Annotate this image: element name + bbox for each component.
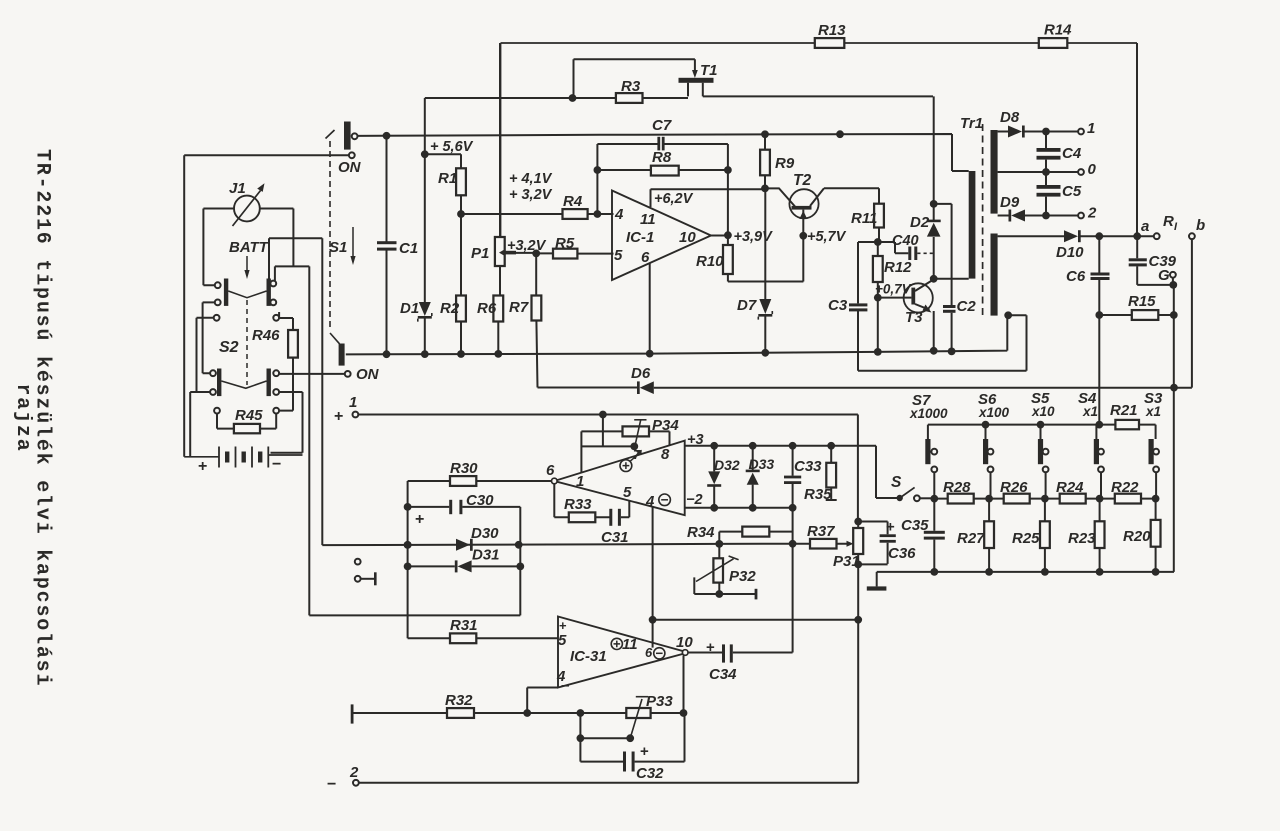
svg-text:R2: R2 xyxy=(440,300,460,317)
wire P31 to terminal2 xyxy=(857,564,859,782)
wire C32 loop xyxy=(580,713,684,762)
resistor R10 xyxy=(696,235,803,281)
svg-text:R10: R10 xyxy=(696,253,724,270)
svg-text:R23: R23 xyxy=(1068,530,1096,547)
resistor R21 xyxy=(1110,402,1139,429)
transformer Tr1 secondary lower xyxy=(991,234,998,316)
node T2 base xyxy=(761,185,769,193)
wire P1 wiper +3,2V xyxy=(507,238,547,257)
wire R3 row xyxy=(425,59,695,154)
switch S3 xyxy=(1149,439,1160,499)
svg-text:x1000: x1000 xyxy=(909,406,948,421)
svg-text:IC-31: IC-31 xyxy=(570,648,607,665)
svg-text:2: 2 xyxy=(1087,205,1097,222)
capacitor C4 xyxy=(1037,132,1082,173)
svg-text:+ 5,6V: + 5,6V xyxy=(430,139,474,155)
svg-text:+: + xyxy=(334,408,343,425)
svg-text:R12: R12 xyxy=(884,259,912,276)
wire J1 left xyxy=(203,209,234,286)
wire ground rail top section xyxy=(346,311,1012,354)
svg-text:rajza: rajza xyxy=(11,384,34,453)
wire lower left down xyxy=(190,392,210,457)
svg-text:S2: S2 xyxy=(219,339,239,356)
label S3 xyxy=(1144,390,1163,419)
transistor T2 xyxy=(765,172,879,282)
wire right bracket x520 xyxy=(516,507,524,616)
svg-text:R3: R3 xyxy=(621,78,641,95)
switch S5 xyxy=(1038,439,1049,499)
terminal 0 xyxy=(1078,161,1096,178)
wire R4 row y214 xyxy=(457,210,613,218)
svg-text:R26: R26 xyxy=(1000,479,1028,496)
wire T1 drain xyxy=(703,95,933,97)
svg-text:x100: x100 xyxy=(978,405,1010,420)
label S7 xyxy=(909,392,948,421)
wire pin4 column xyxy=(649,507,657,648)
potentiometer P31 xyxy=(833,518,863,570)
svg-text:R24: R24 xyxy=(1056,479,1084,496)
svg-text:+3,2V: +3,2V xyxy=(507,238,547,254)
resistor R37 xyxy=(807,523,837,549)
resistor R15 xyxy=(1099,293,1177,320)
resistor R1 xyxy=(425,154,466,214)
svg-text:C7: C7 xyxy=(652,117,672,134)
transformer Tr1 secondary upper xyxy=(991,130,998,214)
resistor R32 xyxy=(445,692,474,718)
wire ladder sub rail xyxy=(928,421,1156,439)
wire pin10 C34 xyxy=(688,639,793,656)
svg-text:R15: R15 xyxy=(1128,293,1156,310)
diode D10 xyxy=(1056,230,1084,261)
wire b column xyxy=(1191,239,1193,387)
svg-text:x1: x1 xyxy=(1145,404,1161,419)
terminal a xyxy=(1141,218,1160,239)
svg-text:R28: R28 xyxy=(943,479,971,496)
resistor R35 xyxy=(804,446,837,503)
svg-text:P32: P32 xyxy=(729,568,756,585)
terminal 2 xyxy=(1078,205,1097,222)
svg-text:4: 4 xyxy=(614,206,624,223)
wire S2 row y266 xyxy=(275,266,309,615)
wire battery minus link xyxy=(271,392,303,453)
resistor R14 xyxy=(1039,22,1072,48)
wire pin6 to ground rail xyxy=(646,263,654,357)
capacitor C2 xyxy=(943,298,976,355)
label S5 xyxy=(1031,390,1055,419)
capacitor C7 xyxy=(652,117,672,150)
wire top rail y43 xyxy=(501,43,1138,237)
svg-text:C4: C4 xyxy=(1062,145,1082,162)
wire D6 row xyxy=(538,387,1192,389)
svg-text:S1: S1 xyxy=(329,239,347,256)
node primary bottom xyxy=(930,275,969,283)
label +4,1V xyxy=(509,171,553,203)
potentiometer P33 xyxy=(626,693,673,738)
svg-text:D6: D6 xyxy=(631,365,651,382)
switch S2 lower pole xyxy=(210,369,279,397)
wire C7 R8 columns xyxy=(594,144,732,235)
svg-text:+3,9V: +3,9V xyxy=(734,229,774,245)
svg-text:C3: C3 xyxy=(828,297,848,314)
svg-text:11: 11 xyxy=(640,211,656,228)
potentiometer P1 xyxy=(471,43,516,296)
resistor R25 xyxy=(1012,499,1050,572)
terminal ON1b xyxy=(349,152,355,158)
resistor R30 xyxy=(408,460,552,486)
op-amp IC-1 xyxy=(612,191,711,281)
wire J1 right xyxy=(260,209,294,267)
diode D32 xyxy=(707,446,740,508)
capacitor C39 xyxy=(1129,236,1177,285)
wire bottom box to secondary xyxy=(858,315,1027,371)
resistor R5 xyxy=(536,235,613,259)
svg-text:R5: R5 xyxy=(555,235,575,252)
capacitor C1 xyxy=(377,136,418,358)
svg-text:R35: R35 xyxy=(804,486,832,503)
resistor R31 xyxy=(408,617,558,643)
svg-text:1: 1 xyxy=(1087,120,1095,137)
wire battery to S1 xyxy=(184,155,349,457)
wire main row y544 xyxy=(322,540,846,549)
node R11 R12 xyxy=(874,238,882,246)
svg-text:C36: C36 xyxy=(888,545,916,562)
label RI xyxy=(1163,213,1178,233)
wire ladder R rail xyxy=(930,495,1159,503)
svg-text:5: 5 xyxy=(558,632,567,649)
svg-text:R30: R30 xyxy=(450,460,478,477)
capacitor C34 xyxy=(709,644,737,683)
svg-text:+: + xyxy=(198,458,207,475)
wire input bracket y615 xyxy=(309,614,520,616)
wire R33 C31 xyxy=(554,484,629,517)
svg-text:S: S xyxy=(891,474,902,491)
svg-text:P31: P31 xyxy=(833,553,860,570)
svg-text:IC-1: IC-1 xyxy=(626,229,654,246)
transistor T3 xyxy=(878,279,938,354)
wire right column xyxy=(1170,285,1178,572)
svg-text:+6,2V: +6,2V xyxy=(654,191,694,207)
svg-text:10: 10 xyxy=(679,229,696,246)
wire R46 top circles xyxy=(197,312,294,392)
resistor R27 xyxy=(957,499,994,572)
label S6 xyxy=(978,391,1010,420)
diode D1 (zener) xyxy=(400,154,432,358)
svg-text:C34: C34 xyxy=(709,666,737,683)
svg-text:R21: R21 xyxy=(1110,402,1138,419)
resistor R13 xyxy=(815,22,846,48)
svg-text:D8: D8 xyxy=(1000,109,1020,126)
svg-text:R33: R33 xyxy=(564,496,592,513)
title text (rotated) xyxy=(11,149,54,687)
resistor R4 xyxy=(563,193,588,219)
svg-text:BATT: BATT xyxy=(229,239,270,256)
svg-text:+: + xyxy=(640,743,649,760)
resistor R26 xyxy=(1000,479,1030,504)
resistor R23 xyxy=(1068,499,1105,572)
svg-text:6: 6 xyxy=(546,462,555,479)
wire R14 to node a xyxy=(1136,43,1138,233)
op-amp IC-3 xyxy=(546,432,704,515)
diode D7 (zener) xyxy=(737,188,772,356)
terminal 1 plus xyxy=(334,394,358,425)
wire rail B+ y134 xyxy=(357,130,968,171)
wire P33 wiper loop xyxy=(577,713,635,742)
svg-text:R31: R31 xyxy=(450,617,478,634)
svg-text:R11: R11 xyxy=(851,210,877,227)
diode D33 xyxy=(746,446,775,508)
svg-text:D1: D1 xyxy=(400,300,419,317)
wire pin4 bracket xyxy=(527,688,558,714)
svg-text:C2: C2 xyxy=(957,298,977,315)
svg-text:R37: R37 xyxy=(807,523,835,540)
svg-text:+: + xyxy=(559,618,567,633)
svg-text:4: 4 xyxy=(556,668,566,685)
resistor R2 xyxy=(440,214,466,358)
wire +3 rail xyxy=(685,442,900,498)
capacitor C40 xyxy=(878,233,933,260)
svg-text:R8: R8 xyxy=(652,149,672,166)
wire pin11 to T2 base node xyxy=(651,189,766,207)
svg-text:T3: T3 xyxy=(905,309,923,326)
svg-text:Tr1: Tr1 xyxy=(960,115,983,132)
svg-text:2: 2 xyxy=(349,764,359,781)
diode D2 xyxy=(910,96,941,278)
wire P34 right xyxy=(649,431,670,445)
diode D9 xyxy=(1000,194,1025,222)
svg-text:R4: R4 xyxy=(563,193,583,210)
svg-text:8: 8 xyxy=(661,446,670,463)
node T3 base xyxy=(874,294,882,356)
wire R46 bottom xyxy=(279,358,293,411)
svg-text:0: 0 xyxy=(1088,161,1097,178)
wire upper to lower pole xyxy=(203,302,215,373)
resistor R9 xyxy=(760,134,795,188)
svg-text:T2: T2 xyxy=(793,172,811,189)
terminal ON2 xyxy=(345,366,380,383)
transistor T1 xyxy=(679,59,718,96)
svg-text:R22: R22 xyxy=(1111,479,1139,496)
terminal b xyxy=(1189,217,1205,239)
svg-text:R6: R6 xyxy=(477,300,497,317)
wire ladder bottom rail xyxy=(877,568,1174,576)
resistor R11 xyxy=(851,188,884,242)
op-amp IC-31 xyxy=(556,617,693,688)
svg-text:+5,7V: +5,7V xyxy=(807,229,847,245)
wire terminal2 rail xyxy=(359,782,858,784)
switch S1 dashed link xyxy=(330,141,340,344)
svg-text:1: 1 xyxy=(349,394,357,411)
wire pin7 wiper xyxy=(581,415,638,451)
svg-text:R7: R7 xyxy=(509,299,529,316)
svg-text:R45: R45 xyxy=(235,407,263,424)
svg-text:R9: R9 xyxy=(775,155,795,172)
transformer Tr1 primary xyxy=(960,115,983,279)
resistor R46 xyxy=(252,327,298,358)
capacitor C33 xyxy=(784,446,822,508)
terminal 2 minus xyxy=(327,764,359,793)
svg-text:C33: C33 xyxy=(794,458,822,475)
svg-text:G: G xyxy=(1158,267,1170,284)
switch S7 xyxy=(925,439,937,499)
wire ON2 to S2 xyxy=(276,373,345,375)
ground xyxy=(867,572,887,591)
svg-text:C32: C32 xyxy=(636,765,664,782)
svg-text:C6: C6 xyxy=(1066,268,1086,285)
wire C6 to ladder xyxy=(1098,315,1100,425)
svg-text:R1: R1 xyxy=(438,170,457,187)
transformer core xyxy=(982,124,984,318)
svg-text:a: a xyxy=(1141,218,1149,235)
svg-text:R13: R13 xyxy=(818,22,846,39)
capacitor C35 ladder xyxy=(924,499,945,572)
svg-text:−: − xyxy=(272,456,281,473)
input terminal upper xyxy=(355,559,361,565)
node +5,7V xyxy=(799,229,846,245)
svg-text:R14: R14 xyxy=(1044,22,1072,39)
switch S xyxy=(891,474,934,501)
svg-text:R34: R34 xyxy=(687,524,715,541)
svg-text:R25: R25 xyxy=(1012,530,1040,547)
wire sec out 1 xyxy=(998,128,1079,136)
capacitor C31 xyxy=(601,509,629,546)
diode D30 xyxy=(456,525,499,551)
svg-text:D30: D30 xyxy=(471,525,499,542)
resistor R3 xyxy=(616,78,643,103)
svg-text:b: b xyxy=(1196,217,1205,234)
meter J1 xyxy=(229,180,265,226)
input terminal lower xyxy=(355,572,377,585)
wire a-node row xyxy=(998,232,1154,240)
resistor R20 xyxy=(1123,499,1161,572)
svg-text:P33: P33 xyxy=(646,693,673,710)
resistor R28 xyxy=(943,479,974,504)
wire -2 rail xyxy=(685,504,797,512)
svg-text:x10: x10 xyxy=(1031,404,1055,419)
svg-text:5: 5 xyxy=(614,247,623,264)
svg-text:7: 7 xyxy=(633,447,641,462)
svg-text:R20: R20 xyxy=(1123,528,1151,545)
switch S1 upper ON xyxy=(326,122,351,150)
capacitor C30 xyxy=(408,492,521,528)
diode D8 xyxy=(1000,109,1025,138)
wire C33 column down xyxy=(792,508,794,653)
battery BATT cells xyxy=(184,447,302,476)
svg-text:D2: D2 xyxy=(910,214,930,231)
switch S1 lower ON xyxy=(339,344,345,366)
svg-text:D33: D33 xyxy=(749,456,775,472)
resistor R8 xyxy=(597,149,728,176)
switch S6 xyxy=(983,439,993,499)
wire left bracket x407 xyxy=(404,481,412,638)
svg-text:C40: C40 xyxy=(892,233,919,249)
svg-text:10: 10 xyxy=(676,634,693,651)
svg-text:D7: D7 xyxy=(737,297,757,314)
label S4 xyxy=(1078,390,1098,419)
resistor R33 xyxy=(564,496,595,522)
diode D6 xyxy=(631,365,654,394)
resistor R12 xyxy=(873,242,912,298)
capacitor C5 xyxy=(1037,172,1082,216)
svg-text:C5: C5 xyxy=(1062,183,1082,200)
label +0,7V xyxy=(875,282,912,297)
svg-text:P1: P1 xyxy=(471,245,489,262)
wire R32 row xyxy=(351,704,688,723)
svg-text:R: R xyxy=(1163,213,1174,230)
terminal G xyxy=(1158,267,1177,289)
label S1 xyxy=(329,227,356,265)
svg-text:+ 4,1V: + 4,1V xyxy=(509,171,553,187)
svg-text:R46: R46 xyxy=(252,327,280,344)
label S2 xyxy=(219,339,239,356)
svg-text:x1: x1 xyxy=(1082,404,1098,419)
capacitor C3 xyxy=(828,242,878,371)
wire terminal1 rail xyxy=(358,411,858,522)
svg-text:C30: C30 xyxy=(466,492,494,509)
svg-text:D10: D10 xyxy=(1056,244,1084,261)
wire P34 left to pin1 xyxy=(581,431,622,472)
svg-text:D31: D31 xyxy=(472,547,500,564)
node +5,6V xyxy=(421,139,474,158)
svg-text:+: + xyxy=(886,519,895,536)
diode D31 xyxy=(455,547,500,573)
resistor R24 xyxy=(1056,479,1086,504)
resistor R45 xyxy=(214,407,279,433)
label BATT xyxy=(229,239,270,279)
svg-text:J1: J1 xyxy=(229,180,246,197)
capacitor C6 xyxy=(1066,236,1110,319)
svg-text:6: 6 xyxy=(641,249,650,266)
wire sec out 2 xyxy=(998,212,1079,220)
wire S2 dashed xyxy=(246,300,248,385)
wire C2 tap xyxy=(930,200,952,305)
svg-text:5: 5 xyxy=(623,484,632,501)
svg-text:+: + xyxy=(706,639,715,656)
wire sec out 0 xyxy=(998,168,1079,176)
svg-text:6: 6 xyxy=(645,645,653,660)
svg-text:C1: C1 xyxy=(399,240,418,257)
capacitor C36 loop xyxy=(858,517,929,564)
switch S2 upper pole xyxy=(215,279,276,306)
svg-text:ON: ON xyxy=(338,159,362,176)
capacitor C32 xyxy=(623,743,664,782)
resistor R22 xyxy=(1111,479,1141,504)
svg-text:C31: C31 xyxy=(601,529,629,546)
resistor R6 xyxy=(477,296,503,358)
wire S2 row y238 xyxy=(269,238,322,545)
node +3,9V pin10 xyxy=(711,229,773,245)
svg-text:11: 11 xyxy=(622,636,638,653)
terminal ON1 xyxy=(338,133,362,176)
svg-text:−: − xyxy=(327,776,336,793)
wire pin10 feedback xyxy=(683,655,685,713)
switch S4 xyxy=(1094,439,1104,499)
potentiometer P34 xyxy=(623,417,680,447)
svg-text:D9: D9 xyxy=(1000,194,1020,211)
svg-text:R27: R27 xyxy=(957,530,985,547)
resistor R7 xyxy=(509,253,541,387)
terminal 1 xyxy=(1078,120,1095,137)
svg-text:+: + xyxy=(415,511,424,528)
svg-text:1: 1 xyxy=(576,473,584,490)
wire pin4 to P31 column xyxy=(653,616,863,624)
svg-text:+ 3,2V: + 3,2V xyxy=(509,187,553,203)
resistor R34 xyxy=(687,524,793,544)
svg-text:−2: −2 xyxy=(686,492,703,508)
svg-text:R32: R32 xyxy=(445,692,473,709)
svg-text:ON: ON xyxy=(356,366,380,383)
wire D31 row xyxy=(408,565,521,567)
svg-text:T1: T1 xyxy=(700,62,718,79)
